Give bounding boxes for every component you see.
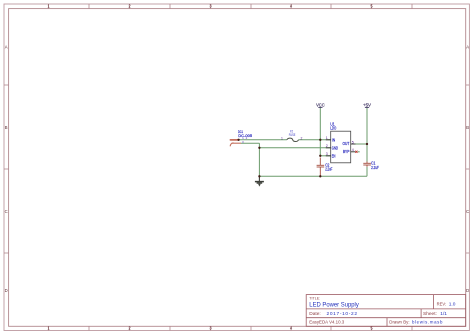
svg-text:2.2uF: 2.2uF	[371, 165, 379, 170]
svg-text:LDO: LDO	[330, 125, 336, 130]
net flag VCC	[316, 103, 325, 109]
svg-text:Sheet:: Sheet:	[423, 311, 437, 317]
top margin ticks	[49, 4, 413, 9]
top margin column numbers	[47, 3, 373, 8]
svg-text:REV:: REV:	[437, 302, 447, 308]
BYP unconnected pin end	[355, 151, 357, 153]
bottom margin column numbers	[47, 326, 373, 331]
U1 left pin stubs	[326, 140, 356, 156]
junction dots	[237, 139, 368, 178]
svg-text:5: 5	[352, 140, 354, 144]
left margin ticks	[4, 85, 9, 253]
wire: bottom ground rail	[259, 175, 367, 177]
svg-text:D: D	[466, 288, 469, 293]
wire: gnd vertical drop	[258, 148, 260, 177]
wire: GND net horizontal to IC GND pin	[259, 147, 330, 149]
svg-text:B: B	[5, 125, 8, 130]
svg-text:GND: GND	[332, 146, 338, 151]
svg-text:BYP: BYP	[343, 149, 350, 154]
svg-text:IN: IN	[332, 138, 335, 143]
svg-text:3: 3	[326, 152, 328, 156]
svg-text:C: C	[466, 209, 469, 214]
svg-text:C: C	[5, 209, 8, 214]
wire: C1 bottom riser	[366, 167, 368, 177]
svg-text:FUSE: FUSE	[289, 133, 296, 137]
wire: DC jack pin2 horizontal	[241, 142, 259, 144]
title block	[306, 295, 466, 327]
svg-text:A: A	[5, 45, 8, 50]
U1 pin names	[332, 138, 350, 159]
DC1 pin numbers	[242, 136, 248, 144]
net flag +5V	[363, 103, 372, 109]
svg-text:4: 4	[352, 148, 354, 152]
svg-text:EN: EN	[332, 154, 336, 159]
svg-text:DC-005: DC-005	[238, 133, 253, 138]
svg-text:Date:: Date:	[309, 311, 320, 317]
svg-text:1: 1	[281, 136, 283, 140]
svg-text:TITLE:: TITLE:	[309, 296, 320, 301]
svg-text:2.2uF: 2.2uF	[325, 166, 332, 171]
svg-text:EasyEDA V4.10.3: EasyEDA V4.10.3	[309, 320, 344, 325]
connector DC1 (DC-005 barrel jack)	[230, 140, 241, 146]
wire: fuse to IC IN pin	[299, 139, 331, 141]
svg-text:1.0: 1.0	[449, 302, 456, 308]
capacitor C2	[317, 158, 325, 177]
wire: VCC stub down to IN wire and on to EN	[319, 107, 321, 155]
wire: step down to GND net	[258, 143, 260, 148]
svg-text:blewis.masb: blewis.masb	[412, 320, 443, 325]
svg-text:D: D	[5, 288, 8, 293]
left margin row letters	[5, 45, 8, 294]
svg-text:2: 2	[301, 136, 303, 140]
wire: EN pin wire	[320, 155, 330, 157]
svg-text:1/1: 1/1	[440, 311, 447, 317]
bottom margin ticks	[49, 326, 413, 330]
wire: DC jack pin1 to fuse (IN net)	[237, 139, 287, 141]
svg-text:OUT: OUT	[343, 141, 350, 146]
ground symbol	[255, 176, 264, 186]
wire: OUT pin to +5V junction	[356, 143, 368, 145]
op-amp U1 LDO body	[331, 131, 351, 163]
svg-text:LED Power Supply: LED Power Supply	[309, 303, 359, 309]
wire: +5V stub down to OUT wire	[366, 107, 368, 144]
svg-text:A: A	[466, 45, 469, 50]
svg-text:1: 1	[326, 136, 328, 140]
U1 pin numbers	[326, 136, 354, 156]
svg-text:B: B	[466, 125, 469, 130]
svg-text:2017-10-22: 2017-10-22	[327, 311, 358, 317]
svg-text:2: 2	[326, 144, 328, 148]
fuse F2 body	[287, 138, 299, 141]
right margin ticks	[466, 85, 470, 253]
svg-text:Drawn By:: Drawn By:	[389, 320, 409, 325]
right margin row letters	[466, 45, 469, 294]
capacitor C1	[363, 162, 371, 167]
wire: C1 top lead from OUT junction	[366, 144, 368, 162]
